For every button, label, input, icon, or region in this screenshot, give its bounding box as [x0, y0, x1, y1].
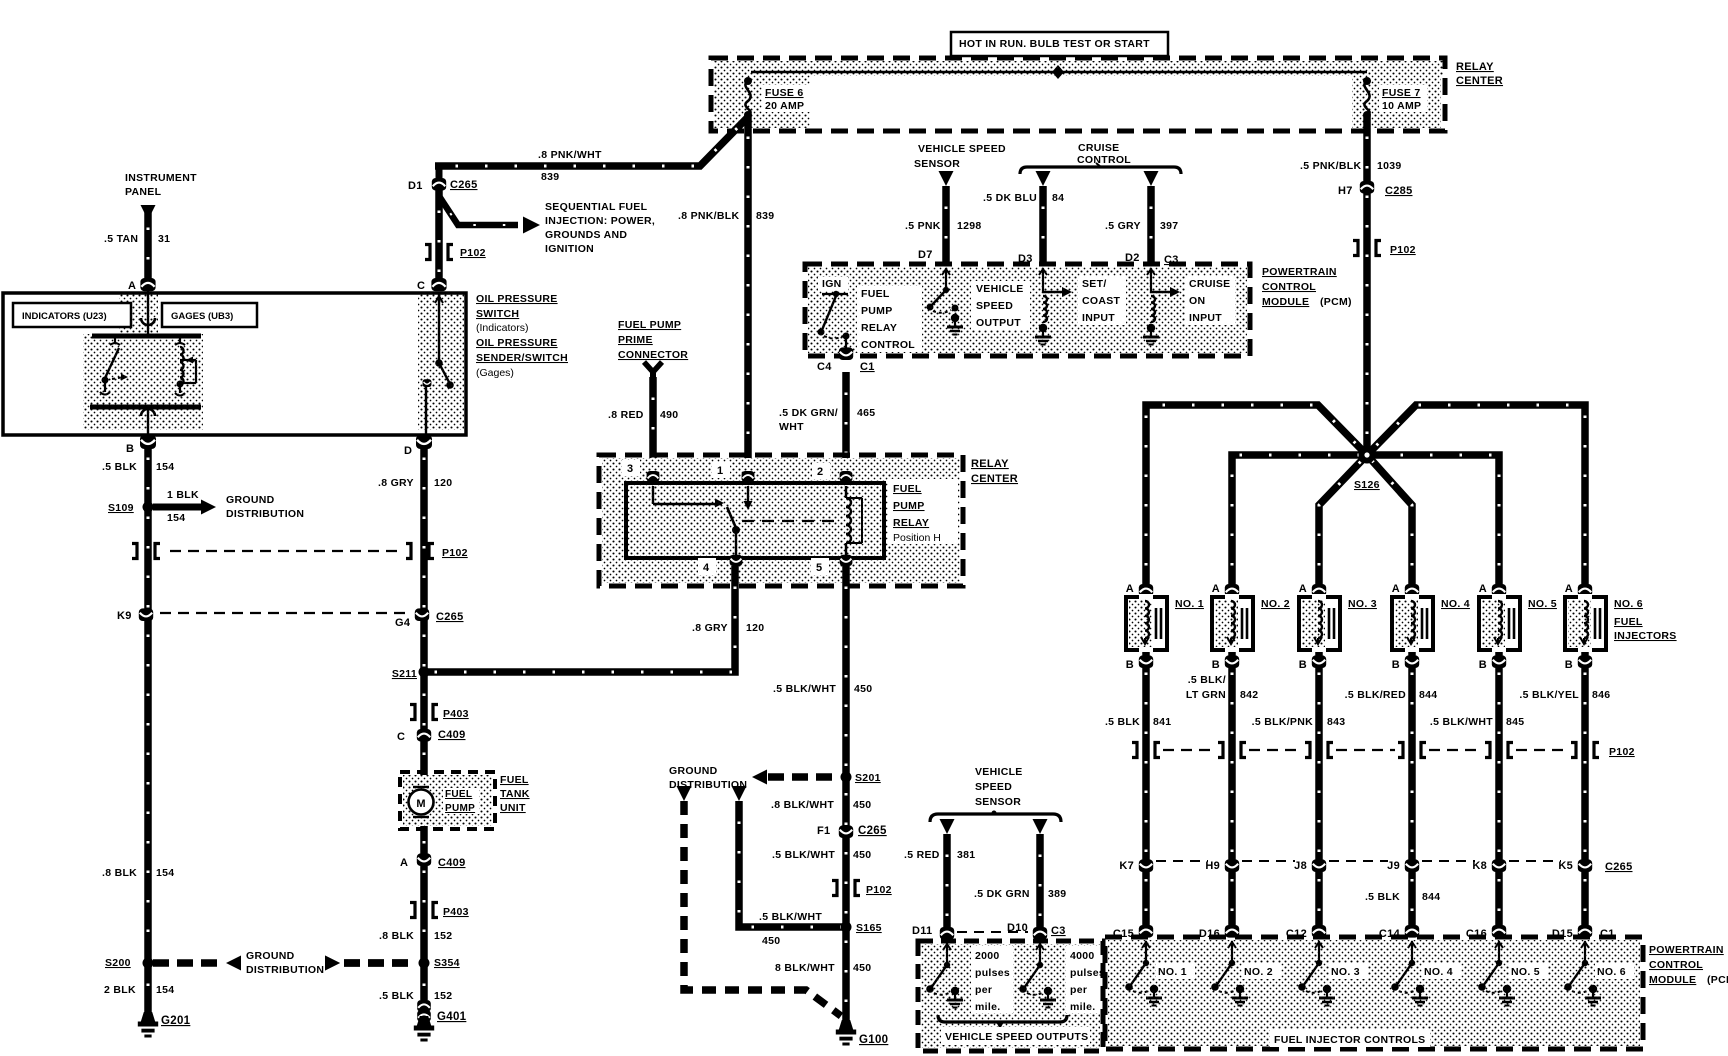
svg-text:NO. 3: NO. 3 — [1331, 966, 1360, 978]
svg-text:465: 465 — [857, 407, 875, 419]
svg-text:.8 PNK/BLK: .8 PNK/BLK — [678, 210, 739, 222]
svg-text:pulses: pulses — [975, 967, 1010, 979]
svg-text:pulses: pulses — [1070, 967, 1105, 979]
svg-text:154: 154 — [156, 461, 174, 473]
svg-text:B: B — [1565, 659, 1573, 671]
svg-text:F1: F1 — [817, 825, 830, 837]
svg-text:A: A — [128, 280, 136, 292]
svg-text:.8 BLK: .8 BLK — [379, 930, 414, 942]
svg-text:.5 PNK/BLK: .5 PNK/BLK — [1300, 160, 1361, 172]
svg-text:COAST: COAST — [1082, 295, 1121, 307]
svg-text:DISTRIBUTION: DISTRIBUTION — [246, 964, 324, 976]
svg-text:G100: G100 — [859, 1034, 888, 1046]
svg-text:GROUND: GROUND — [669, 765, 718, 777]
svg-text:.5 PNK: .5 PNK — [905, 220, 941, 232]
svg-text:397: 397 — [1160, 220, 1178, 232]
svg-text:.5 BLK: .5 BLK — [1365, 891, 1400, 903]
svg-text:.5 DK GRN/: .5 DK GRN/ — [779, 407, 838, 419]
svg-text:.5 BLK/: .5 BLK/ — [1188, 674, 1226, 686]
svg-text:20 AMP: 20 AMP — [765, 100, 804, 112]
svg-text:.5 DK BLU: .5 DK BLU — [983, 192, 1037, 204]
svg-text:1039: 1039 — [1377, 160, 1402, 172]
svg-text:A: A — [1392, 583, 1400, 595]
svg-text:D: D — [404, 445, 412, 457]
svg-text:MODULE: MODULE — [1649, 974, 1696, 986]
svg-text:C409: C409 — [438, 857, 466, 869]
svg-text:P102: P102 — [1609, 746, 1635, 758]
svg-text:C: C — [397, 731, 405, 743]
svg-text:4: 4 — [703, 562, 710, 574]
svg-text:J9: J9 — [1387, 860, 1400, 872]
svg-text:(PCM): (PCM) — [1707, 974, 1728, 986]
svg-text:C3: C3 — [1164, 254, 1179, 266]
svg-text:K8: K8 — [1472, 860, 1487, 872]
svg-text:5: 5 — [816, 562, 822, 574]
svg-text:S211: S211 — [392, 668, 417, 680]
svg-text:C1: C1 — [860, 361, 875, 373]
svg-text:P102: P102 — [1390, 244, 1416, 256]
svg-text:RELAY: RELAY — [861, 322, 897, 334]
svg-text:.5 BLK/WHT: .5 BLK/WHT — [772, 849, 835, 861]
svg-text:WHT: WHT — [779, 421, 804, 433]
svg-text:C265: C265 — [1605, 861, 1633, 873]
svg-text:389: 389 — [1048, 888, 1066, 900]
svg-text:PRIME: PRIME — [618, 334, 653, 346]
svg-text:84: 84 — [1052, 192, 1064, 204]
svg-text:NO. 4: NO. 4 — [1424, 966, 1453, 978]
svg-text:381: 381 — [957, 849, 975, 861]
svg-text:.5 BLK/WHT: .5 BLK/WHT — [759, 911, 822, 923]
svg-text:G401: G401 — [437, 1011, 467, 1023]
svg-text:FUEL INJECTOR CONTROLS: FUEL INJECTOR CONTROLS — [1274, 1034, 1425, 1046]
svg-text:VEHICLE SPEED OUTPUTS: VEHICLE SPEED OUTPUTS — [945, 1031, 1088, 1043]
svg-text:P102: P102 — [460, 247, 486, 259]
svg-text:P403: P403 — [443, 906, 469, 918]
svg-text:A: A — [1565, 583, 1573, 595]
svg-text:D1: D1 — [408, 180, 423, 192]
svg-text:INJECTION: POWER,: INJECTION: POWER, — [545, 215, 655, 227]
svg-text:.8 RED: .8 RED — [608, 409, 644, 421]
svg-text:154: 154 — [156, 984, 174, 996]
svg-text:PANEL: PANEL — [125, 186, 162, 198]
svg-text:POWERTRAIN: POWERTRAIN — [1262, 266, 1337, 278]
svg-text:LT GRN: LT GRN — [1186, 689, 1226, 701]
svg-text:NO. 5: NO. 5 — [1511, 966, 1540, 978]
svg-text:2: 2 — [817, 466, 823, 478]
svg-text:CONTROL: CONTROL — [1649, 959, 1703, 971]
svg-text:P102: P102 — [866, 884, 892, 896]
svg-text:FUEL: FUEL — [893, 483, 922, 495]
svg-text:NO. 1: NO. 1 — [1175, 598, 1204, 610]
svg-text:NO. 1: NO. 1 — [1158, 966, 1187, 978]
svg-text:MODULE: MODULE — [1262, 296, 1309, 308]
svg-text:839: 839 — [541, 171, 559, 183]
svg-text:C285: C285 — [1385, 185, 1413, 197]
svg-text:OIL PRESSURE: OIL PRESSURE — [476, 337, 558, 349]
svg-text:H7: H7 — [1338, 185, 1353, 197]
svg-text:(Gages): (Gages) — [476, 367, 514, 379]
svg-text:NO. 6: NO. 6 — [1597, 966, 1626, 978]
svg-text:152: 152 — [434, 990, 452, 1002]
svg-text:NO. 2: NO. 2 — [1244, 966, 1273, 978]
svg-text:2 BLK: 2 BLK — [104, 984, 136, 996]
svg-text:CONTROL: CONTROL — [1077, 154, 1131, 166]
svg-text:SPEED: SPEED — [976, 300, 1013, 312]
svg-text:D2: D2 — [1125, 252, 1140, 264]
svg-text:OUTPUT: OUTPUT — [976, 317, 1021, 329]
svg-text:450: 450 — [853, 962, 871, 974]
svg-text:10 AMP: 10 AMP — [1382, 100, 1421, 112]
svg-text:450: 450 — [854, 683, 872, 695]
svg-text:FUSE 6: FUSE 6 — [765, 87, 804, 99]
svg-text:C265: C265 — [450, 179, 478, 191]
svg-text:842: 842 — [1240, 689, 1258, 701]
svg-text:POWERTRAIN: POWERTRAIN — [1649, 944, 1724, 956]
svg-text:152: 152 — [434, 930, 452, 942]
svg-text:INPUT: INPUT — [1082, 312, 1115, 324]
svg-text:.5 BLK: .5 BLK — [1105, 716, 1140, 728]
svg-text:OIL PRESSURE: OIL PRESSURE — [476, 293, 558, 305]
svg-text:A: A — [1479, 583, 1487, 595]
svg-text:SENSOR: SENSOR — [975, 796, 1021, 808]
svg-text:CENTER: CENTER — [971, 473, 1018, 485]
svg-text:CONNECTOR: CONNECTOR — [618, 349, 688, 361]
svg-text:NO. 6: NO. 6 — [1614, 598, 1643, 610]
svg-text:839: 839 — [756, 210, 774, 222]
svg-text:PUMP: PUMP — [893, 500, 925, 512]
svg-text:.5 RED: .5 RED — [904, 849, 940, 861]
svg-text:S126: S126 — [1354, 479, 1380, 491]
svg-text:FUEL: FUEL — [861, 288, 890, 300]
svg-text:per: per — [975, 984, 992, 996]
svg-text:(PCM): (PCM) — [1320, 296, 1352, 308]
svg-text:C265: C265 — [436, 611, 464, 623]
svg-text:.8 GRY: .8 GRY — [378, 477, 414, 489]
svg-text:490: 490 — [660, 409, 678, 421]
svg-text:mile.: mile. — [1070, 1001, 1095, 1013]
svg-text:S354: S354 — [434, 957, 460, 969]
svg-text:G4: G4 — [395, 617, 411, 629]
svg-text:B: B — [1212, 659, 1220, 671]
svg-text:K5: K5 — [1558, 860, 1573, 872]
svg-text:DISTRIBUTION: DISTRIBUTION — [226, 508, 304, 520]
svg-text:Position H: Position H — [893, 532, 941, 544]
svg-text:CENTER: CENTER — [1456, 75, 1503, 87]
svg-text:450: 450 — [762, 935, 780, 947]
svg-text:S165: S165 — [856, 922, 882, 934]
svg-text:S200: S200 — [105, 957, 131, 969]
svg-text:VEHICLE: VEHICLE — [975, 766, 1023, 778]
svg-text:.5 BLK: .5 BLK — [379, 990, 414, 1002]
svg-text:VEHICLE SPEED: VEHICLE SPEED — [918, 143, 1006, 155]
svg-text:SET/: SET/ — [1082, 278, 1107, 290]
svg-text:HOT IN RUN. BULB TEST OR START: HOT IN RUN. BULB TEST OR START — [959, 38, 1150, 50]
svg-text:B: B — [1479, 659, 1487, 671]
svg-text:NO. 2: NO. 2 — [1261, 598, 1290, 610]
svg-text:D11: D11 — [912, 925, 932, 937]
svg-text:B: B — [1126, 659, 1134, 671]
svg-text:M: M — [416, 798, 425, 810]
svg-text:A: A — [1126, 583, 1134, 595]
svg-text:.8 BLK: .8 BLK — [102, 867, 137, 879]
svg-text:154: 154 — [156, 867, 174, 879]
svg-text:INDICATORS (U23): INDICATORS (U23) — [22, 311, 107, 322]
svg-text:GROUND: GROUND — [246, 950, 295, 962]
svg-text:.5 BLK/WHT: .5 BLK/WHT — [1430, 716, 1493, 728]
svg-text:IGN: IGN — [822, 278, 842, 290]
svg-text:SPEED: SPEED — [975, 781, 1012, 793]
svg-text:C265: C265 — [858, 825, 887, 837]
svg-text:RELAY: RELAY — [893, 517, 929, 529]
svg-text:.5 DK GRN: .5 DK GRN — [974, 888, 1030, 900]
svg-text:1: 1 — [717, 465, 723, 477]
svg-text:1298: 1298 — [957, 220, 982, 232]
svg-text:450: 450 — [853, 799, 871, 811]
svg-text:843: 843 — [1327, 716, 1345, 728]
svg-text:TANK: TANK — [500, 788, 530, 800]
svg-text:C409: C409 — [438, 729, 466, 741]
svg-text:per: per — [1070, 984, 1087, 996]
svg-text:J8: J8 — [1294, 860, 1307, 872]
svg-text:RELAY: RELAY — [1456, 61, 1494, 73]
svg-text:CONTROL: CONTROL — [861, 339, 915, 351]
svg-text:.5 BLK/RED: .5 BLK/RED — [1345, 689, 1406, 701]
svg-text:A: A — [1299, 583, 1307, 595]
svg-text:G201: G201 — [161, 1015, 191, 1027]
svg-text:B: B — [126, 443, 134, 455]
svg-text:CRUISE: CRUISE — [1189, 278, 1230, 290]
svg-text:INPUT: INPUT — [1189, 312, 1222, 324]
svg-text:D3: D3 — [1018, 253, 1033, 265]
svg-text:154: 154 — [167, 512, 185, 524]
svg-text:GROUNDS AND: GROUNDS AND — [545, 229, 627, 241]
svg-text:ON: ON — [1189, 295, 1205, 307]
svg-text:.5 BLK/YEL: .5 BLK/YEL — [1519, 689, 1579, 701]
svg-text:INJECTORS: INJECTORS — [1614, 630, 1677, 642]
svg-text:.5 TAN: .5 TAN — [104, 233, 138, 245]
svg-text:.5 BLK: .5 BLK — [102, 461, 137, 473]
svg-text:FUEL: FUEL — [500, 774, 529, 786]
svg-text:VEHICLE: VEHICLE — [976, 283, 1024, 295]
svg-text:CRUISE: CRUISE — [1078, 142, 1119, 154]
svg-text:B: B — [1299, 659, 1307, 671]
svg-text:8 BLK/WHT: 8 BLK/WHT — [775, 962, 835, 974]
svg-text:3: 3 — [627, 463, 633, 475]
svg-text:1 BLK: 1 BLK — [167, 489, 199, 501]
svg-text:120: 120 — [746, 622, 764, 634]
svg-text:SENDER/SWITCH: SENDER/SWITCH — [476, 352, 568, 364]
svg-text:mile.: mile. — [975, 1001, 1000, 1013]
svg-text:450: 450 — [853, 849, 871, 861]
svg-text:P403: P403 — [443, 708, 469, 720]
svg-text:INSTRUMENT: INSTRUMENT — [125, 172, 197, 184]
svg-text:.8 GRY: .8 GRY — [692, 622, 728, 634]
svg-text:S109: S109 — [108, 502, 134, 514]
svg-text:SWITCH: SWITCH — [476, 308, 519, 320]
svg-text:A: A — [400, 857, 408, 869]
svg-text:2000: 2000 — [975, 950, 1000, 962]
svg-text:SEQUENTIAL FUEL: SEQUENTIAL FUEL — [545, 201, 648, 213]
svg-text:UNIT: UNIT — [500, 802, 526, 814]
svg-text:GROUND: GROUND — [226, 494, 275, 506]
svg-text:H9: H9 — [1205, 860, 1220, 872]
svg-text:SENSOR: SENSOR — [914, 158, 960, 170]
svg-text:FUEL: FUEL — [1614, 616, 1643, 628]
svg-text:CONTROL: CONTROL — [1262, 281, 1316, 293]
svg-text:4000: 4000 — [1070, 950, 1095, 962]
svg-text:K7: K7 — [1119, 860, 1134, 872]
svg-text:845: 845 — [1506, 716, 1524, 728]
svg-text:846: 846 — [1592, 689, 1610, 701]
svg-text:NO. 3: NO. 3 — [1348, 598, 1377, 610]
svg-text:.5 BLK/PNK: .5 BLK/PNK — [1252, 716, 1313, 728]
svg-text:.8 BLK/WHT: .8 BLK/WHT — [771, 799, 834, 811]
svg-text:.8 PNK/WHT: .8 PNK/WHT — [538, 149, 602, 161]
svg-text:GAGES (UB3): GAGES (UB3) — [171, 311, 233, 322]
svg-text:120: 120 — [434, 477, 452, 489]
svg-text:FUEL: FUEL — [445, 789, 472, 800]
svg-text:.5 BLK/WHT: .5 BLK/WHT — [773, 683, 836, 695]
svg-text:P102: P102 — [442, 547, 468, 559]
svg-text:B: B — [1392, 659, 1400, 671]
svg-text:(Indicators): (Indicators) — [476, 322, 529, 334]
svg-text:D7: D7 — [918, 249, 933, 261]
svg-text:C4: C4 — [817, 361, 832, 373]
svg-text:844: 844 — [1419, 689, 1437, 701]
svg-text:31: 31 — [158, 233, 170, 245]
svg-text:FUSE 7: FUSE 7 — [1382, 87, 1421, 99]
svg-text:PUMP: PUMP — [861, 305, 893, 317]
svg-text:IGNITION: IGNITION — [545, 243, 594, 255]
svg-text:NO. 4: NO. 4 — [1441, 598, 1470, 610]
svg-text:844: 844 — [1422, 891, 1440, 903]
svg-text:RELAY: RELAY — [971, 458, 1009, 470]
svg-text:841: 841 — [1153, 716, 1171, 728]
svg-text:FUEL PUMP: FUEL PUMP — [618, 319, 681, 331]
svg-text:A: A — [1212, 583, 1220, 595]
svg-text:.5 GRY: .5 GRY — [1105, 220, 1141, 232]
svg-text:C: C — [417, 280, 425, 292]
svg-text:NO. 5: NO. 5 — [1528, 598, 1557, 610]
svg-text:K9: K9 — [117, 610, 132, 622]
svg-text:C3: C3 — [1051, 925, 1066, 937]
svg-text:PUMP: PUMP — [445, 803, 475, 814]
svg-text:S201: S201 — [855, 772, 881, 784]
